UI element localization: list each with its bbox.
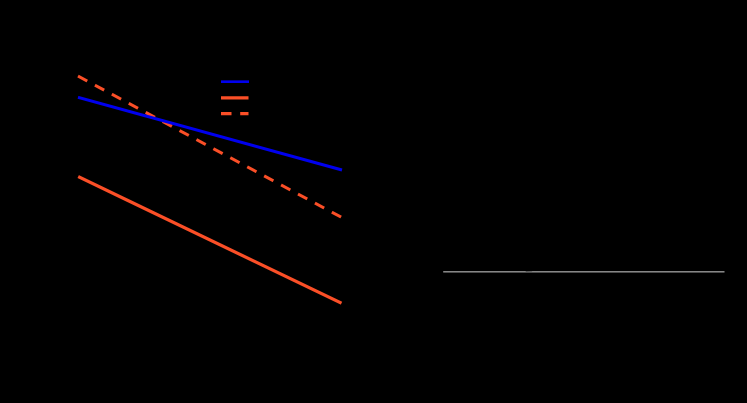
legend blue solid sample (221, 80, 249, 83)
orange dashed line (left plot) (78, 76, 342, 218)
blue solid line (left plot) (78, 97, 342, 170)
legend orange dashed sample (221, 112, 249, 115)
orange solid line (left plot) (78, 177, 341, 304)
dark notch where black marker overlaps gray line (526, 270, 532, 272)
legend orange solid sample (221, 96, 249, 99)
gray horizontal line (right plot) (443, 271, 724, 273)
